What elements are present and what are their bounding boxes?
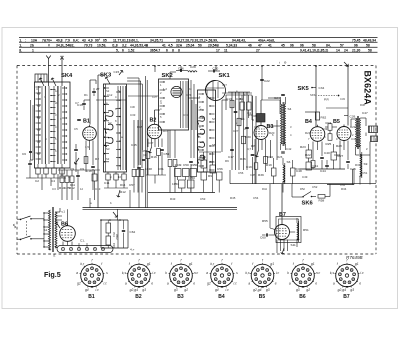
svg-text:g1: g1 (311, 262, 315, 266)
svg-text:R39: R39 (258, 173, 264, 177)
svg-text:11,77,81,19,60,1,: 11,77,81,19,60,1, (113, 39, 139, 43)
svg-text:R7649B: R7649B (346, 255, 363, 260)
svg-text:C13: C13 (226, 97, 232, 101)
svg-text:R4: R4 (188, 87, 192, 91)
svg-text:6: 6 (122, 48, 124, 52)
svg-text:C41: C41 (313, 164, 319, 168)
svg-text:B1: B1 (83, 119, 90, 125)
svg-text:1.: 1. (19, 44, 22, 48)
svg-text:C34: C34 (319, 86, 325, 90)
svg-text:5,: 5, (116, 48, 119, 52)
svg-text:g4: g4 (215, 288, 219, 292)
svg-text:i.c: i.c (276, 271, 280, 275)
svg-text:13A: 13A (31, 39, 38, 43)
svg-text:C40: C40 (324, 151, 330, 155)
svg-text:B7: B7 (343, 294, 350, 300)
svg-text:24: 24 (344, 48, 348, 52)
svg-text:i.c: i.c (152, 271, 156, 275)
svg-text:C57: C57 (129, 183, 135, 187)
svg-text:79,73: 79,73 (84, 44, 93, 48)
svg-text:27: 27 (96, 87, 100, 91)
svg-text:40,8: 40,8 (56, 39, 63, 43)
svg-text:B4: B4 (218, 294, 225, 300)
svg-text:k,s: k,s (122, 271, 127, 275)
svg-text:S9: S9 (364, 162, 368, 166)
svg-text:10,59,: 10,59, (97, 44, 106, 48)
svg-text:8: 8 (178, 48, 180, 52)
svg-text:i.c: i.c (96, 288, 100, 292)
svg-text:a: a (289, 281, 291, 285)
svg-text:12: 12 (80, 187, 83, 191)
svg-text:96: 96 (354, 44, 358, 48)
svg-text:34,35,71: 34,35,71 (150, 39, 163, 43)
svg-text:#: # (48, 44, 50, 48)
svg-text:94,48,43,: 94,48,43, (232, 39, 246, 43)
svg-text:B4: B4 (305, 119, 312, 125)
svg-text:6,4;: 6,4; (73, 39, 79, 43)
svg-text:10: 10 (118, 175, 121, 179)
svg-text:5,34,33: 5,34,33 (226, 44, 237, 48)
svg-text:a: a (206, 271, 208, 275)
svg-text:R1: R1 (84, 93, 88, 97)
svg-text:8.: 8. (19, 48, 22, 52)
svg-text:1748: 1748 (145, 167, 152, 171)
svg-text:58: 58 (312, 44, 316, 48)
svg-text:C46: C46 (351, 137, 357, 141)
svg-text:B6: B6 (299, 294, 306, 300)
svg-text:R51: R51 (303, 228, 309, 232)
svg-text:50: 50 (37, 152, 40, 156)
svg-text:R24: R24 (326, 121, 332, 125)
svg-text:44,26,53,4B: 44,26,53,4B (130, 44, 149, 48)
svg-text:4,9: 4,9 (88, 39, 93, 43)
svg-text:7:9: 7:9 (65, 39, 70, 43)
svg-text:R45: R45 (230, 196, 236, 200)
svg-text:58: 58 (368, 48, 372, 52)
svg-text:u1: u1 (62, 210, 66, 214)
svg-text:S7: S7 (212, 117, 216, 121)
svg-text:27: 27 (256, 48, 260, 52)
svg-text:C44: C44 (320, 169, 326, 173)
svg-text:C2: C2 (35, 179, 39, 183)
svg-text:1949: 1949 (175, 163, 182, 167)
svg-text:C39: C39 (322, 127, 328, 131)
svg-text:41: 41 (162, 44, 166, 48)
svg-text:C62: C62 (130, 230, 136, 234)
svg-text:g2: g2 (77, 281, 81, 285)
svg-text:e: e (275, 281, 277, 285)
svg-text:84,: 84, (326, 44, 331, 48)
svg-text:R9: R9 (225, 159, 229, 163)
svg-text:C45: C45 (350, 167, 356, 171)
svg-text:C3: C3 (52, 187, 56, 191)
svg-text:S2: S2 (106, 89, 110, 93)
svg-text:1,2: 1,2 (163, 87, 167, 91)
svg-text:g1: g1 (355, 262, 359, 266)
svg-text:e: e (151, 281, 153, 285)
svg-text:g3: g3 (174, 288, 178, 292)
svg-text:i.c: i.c (360, 271, 364, 275)
svg-text:B3: B3 (177, 294, 184, 300)
svg-text:R8: R8 (251, 144, 255, 148)
svg-text:3950: 3950 (188, 176, 195, 180)
svg-text:R17: R17 (163, 129, 169, 133)
svg-text:C5: C5 (74, 127, 78, 131)
svg-text:a: a (76, 271, 78, 275)
svg-text:e: e (359, 281, 361, 285)
svg-text:BX624A: BX624A (363, 71, 373, 106)
svg-text:1,5: 1,5 (85, 145, 89, 149)
svg-text:C30: C30 (130, 105, 135, 109)
svg-text:R34: R34 (341, 187, 347, 191)
svg-text:32A: 32A (176, 44, 183, 48)
svg-text:C17: C17 (228, 155, 234, 159)
svg-text:21,30: 21,30 (352, 48, 361, 52)
svg-text:C6: C6 (22, 152, 26, 156)
svg-text:R25: R25 (326, 142, 332, 146)
svg-text:B2: B2 (150, 118, 157, 124)
svg-text:R31: R31 (295, 167, 301, 171)
svg-text:49: 49 (37, 140, 40, 144)
svg-text:52: 52 (37, 104, 40, 108)
svg-text:R62: R62 (321, 116, 327, 120)
svg-text:11: 11 (224, 48, 228, 52)
svg-text:C3?: C3? (152, 95, 157, 99)
svg-text:R12: R12 (120, 190, 126, 194)
svg-text:R33: R33 (355, 163, 361, 167)
svg-text:C33: C33 (340, 97, 345, 101)
svg-text:C13: C13 (95, 187, 101, 191)
svg-text:C22: C22 (264, 79, 270, 83)
svg-text:C51: C51 (362, 171, 368, 175)
svg-text:a: a (167, 281, 169, 285)
svg-text:17: 17 (216, 48, 220, 52)
svg-text:C59: C59 (164, 152, 170, 156)
svg-text:C18: C18 (86, 169, 92, 173)
svg-text:C50: C50 (183, 163, 189, 167)
svg-text:53: 53 (37, 116, 40, 120)
svg-text:g4: g4 (85, 288, 89, 292)
svg-text:S11: S11 (291, 243, 297, 247)
svg-text:g2,g4: g2,g4 (130, 288, 138, 292)
svg-text:C53: C53 (200, 197, 206, 201)
svg-text:C29: C29 (186, 93, 192, 97)
svg-text:C42: C42 (286, 147, 292, 151)
svg-text:g3: g3 (350, 288, 354, 292)
svg-text:C52: C52 (312, 185, 318, 189)
svg-text:W02: W02 (115, 234, 119, 240)
svg-text:R4: R4 (241, 117, 245, 121)
svg-text:R43: R43 (170, 197, 176, 201)
svg-text:C54: C54 (253, 196, 259, 200)
svg-text:C7: C7 (75, 101, 79, 105)
svg-text:1: 1 (32, 48, 34, 52)
svg-text:05: 05 (103, 39, 107, 43)
svg-text::: : (25, 39, 26, 43)
svg-text:3,2: 3,2 (122, 44, 127, 48)
svg-text:k,s: k,s (330, 271, 335, 275)
svg-text:SK1: SK1 (219, 73, 231, 79)
svg-text:R30: R30 (360, 103, 365, 107)
svg-text:14: 14 (336, 48, 340, 52)
svg-text:B7: B7 (279, 212, 286, 218)
svg-text:2n: 2n (55, 101, 58, 105)
svg-text:C1,: C1, (80, 239, 85, 243)
svg-text:C35: C35 (131, 143, 137, 147)
svg-text:S3: S3 (106, 157, 110, 161)
svg-text:SK5a: SK5a (310, 93, 317, 97)
svg-text:4,+: 4,+ (130, 248, 135, 252)
svg-text:6: 6 (166, 48, 168, 52)
svg-text:a: a (333, 281, 335, 285)
svg-text:25,04: 25,04 (186, 44, 195, 48)
svg-text:g1: g1 (270, 262, 274, 266)
svg-text:C28: C28 (250, 173, 255, 177)
svg-text:C31: C31 (183, 113, 189, 117)
svg-text:C27: C27 (233, 129, 239, 133)
svg-text:R44: R44 (262, 187, 267, 191)
svg-text:R52: R52 (300, 187, 305, 191)
svg-text:4,5: 4,5 (168, 44, 173, 48)
svg-text:B2: B2 (135, 294, 142, 300)
svg-text:58: 58 (366, 44, 370, 48)
svg-text:C23: C23 (254, 125, 260, 129)
svg-text:g2: g2 (306, 288, 310, 292)
svg-text:i.c: i.c (226, 288, 230, 292)
svg-text:C4: C4 (51, 179, 55, 183)
svg-text:29,54B: 29,54B (208, 44, 219, 48)
svg-text:n.c: n.c (316, 271, 321, 275)
svg-text:R29: R29 (350, 125, 356, 129)
svg-text:S4: S4 (288, 107, 292, 111)
svg-text:R26: R26 (277, 155, 283, 159)
svg-text:C9: C9 (80, 167, 84, 171)
svg-text:g2,g4: g2,g4 (338, 288, 346, 292)
svg-text:41: 41 (268, 44, 272, 48)
svg-text:C30: C30 (245, 135, 251, 139)
svg-text:C56: C56 (217, 167, 223, 171)
svg-text:g3: g3 (142, 288, 146, 292)
svg-text:C39: C39 (350, 115, 356, 119)
svg-text:C37: C37 (148, 141, 154, 145)
svg-text:SK4: SK4 (61, 73, 73, 79)
svg-text:g3: g3 (266, 288, 270, 292)
svg-text:g2: g2 (207, 281, 211, 285)
svg-text:C15: C15 (114, 70, 120, 74)
svg-text:R27: R27 (338, 154, 344, 158)
svg-text:S3: S3 (106, 147, 110, 151)
svg-text:703: 703 (112, 232, 116, 237)
svg-text:n.c: n.c (194, 271, 199, 275)
svg-text:S.: S. (53, 254, 56, 258)
svg-text:34,3L,54B2,: 34,3L,54B2, (56, 44, 74, 48)
svg-text:R7: R7 (210, 160, 214, 164)
svg-text:46: 46 (248, 44, 252, 48)
svg-text:R58: R58 (319, 199, 325, 203)
svg-text:2b: 2b (30, 44, 34, 48)
svg-text:50: 50 (198, 44, 202, 48)
svg-text:SK6: SK6 (302, 201, 314, 207)
svg-text:7&70+: 7&70+ (42, 39, 52, 43)
svg-text:g1: g1 (147, 262, 151, 266)
svg-text:e: e (315, 281, 317, 285)
svg-text:C61: C61 (158, 167, 164, 171)
svg-text:C1?: C1? (222, 83, 227, 87)
svg-text:e: e (193, 281, 195, 285)
svg-text:9,41,41,10,(1,85,2): 9,41,41,10,(1,85,2) (300, 48, 328, 52)
svg-text:1n: 1n (55, 89, 58, 93)
svg-text:48,49,94: 48,49,94 (363, 39, 376, 43)
svg-text:28,27,28,73,92,25,2+,58,99,: 28,27,28,73,92,25,2+,58,99, (176, 39, 218, 43)
svg-text:3654,7: 3654,7 (150, 48, 160, 52)
svg-text:C28: C28 (190, 65, 196, 69)
svg-text:40a+,+0a8,: 40a+,+0a8, (258, 39, 275, 43)
svg-text:51: 51 (37, 92, 40, 96)
svg-text:4,7: 4,7 (247, 147, 251, 151)
svg-text:Fig.5: Fig.5 (44, 270, 61, 279)
svg-text:R15: R15 (137, 125, 143, 129)
svg-text:45: 45 (281, 44, 285, 48)
svg-text:B5: B5 (259, 294, 266, 300)
svg-text:P.R: P.R (324, 98, 330, 102)
svg-text:1950: 1950 (191, 163, 198, 167)
svg-text:C33: C33 (130, 113, 136, 117)
svg-text:C47: C47 (362, 111, 368, 115)
svg-text:R36: R36 (240, 157, 246, 161)
svg-text:g2: g2 (184, 288, 188, 292)
svg-text:SK5: SK5 (298, 86, 310, 92)
svg-text:8: 8 (172, 48, 174, 52)
svg-text:k,s: k,s (245, 271, 250, 275)
svg-text:SK2: SK2 (162, 73, 173, 79)
svg-text:1951: 1951 (172, 182, 179, 186)
svg-text:S2: S2 (108, 121, 112, 125)
svg-text:R19: R19 (266, 163, 272, 167)
svg-text:43: 43 (82, 39, 86, 43)
svg-text:90°: 90° (95, 39, 101, 43)
svg-text:R23: R23 (300, 145, 306, 149)
svg-text:96: 96 (300, 44, 304, 48)
svg-text:57: 57 (340, 44, 344, 48)
svg-text:R14: R14 (120, 183, 126, 187)
svg-text:a: a (248, 281, 250, 285)
svg-text:1,52: 1,52 (128, 48, 135, 52)
svg-text:C56: C56 (238, 171, 244, 175)
svg-text:C53: C53 (340, 183, 345, 187)
svg-text:i.c: i.c (104, 281, 108, 285)
svg-text:C19: C19 (246, 165, 252, 169)
svg-text:75,45: 75,45 (352, 39, 361, 43)
svg-text:R16: R16 (151, 155, 157, 159)
svg-text:B5: B5 (333, 119, 340, 125)
svg-text:C60: C60 (260, 236, 266, 240)
svg-text:i.c: i.c (234, 281, 238, 285)
svg-text:R2: R2 (95, 157, 99, 161)
svg-text:R9: R9 (208, 174, 212, 178)
svg-text:S6: S6 (287, 160, 291, 164)
svg-text:47: 47 (258, 44, 262, 48)
svg-text:54: 54 (37, 128, 40, 132)
svg-text:g2,g4: g2,g4 (253, 288, 261, 292)
svg-text:C26: C26 (236, 97, 242, 101)
svg-text:R5: R5 (248, 113, 252, 117)
svg-text:C11: C11 (104, 181, 110, 185)
svg-text:R21: R21 (305, 131, 311, 135)
svg-text:1.: 1. (19, 39, 22, 43)
svg-text:C12: C12 (107, 93, 113, 97)
svg-text:96: 96 (290, 44, 294, 48)
svg-text:g3: g3 (296, 288, 300, 292)
svg-text:/1,8: /1,8 (112, 44, 118, 48)
svg-text:S8: S8 (212, 143, 216, 147)
svg-text:B1: B1 (88, 294, 95, 300)
svg-text:g1: g1 (189, 262, 193, 266)
svg-text:R55: R55 (262, 219, 268, 223)
svg-text:C49: C49 (302, 175, 308, 179)
svg-text:R28: R28 (336, 144, 342, 148)
svg-text:a: a (125, 281, 127, 285)
svg-text:R11: R11 (70, 183, 75, 187)
